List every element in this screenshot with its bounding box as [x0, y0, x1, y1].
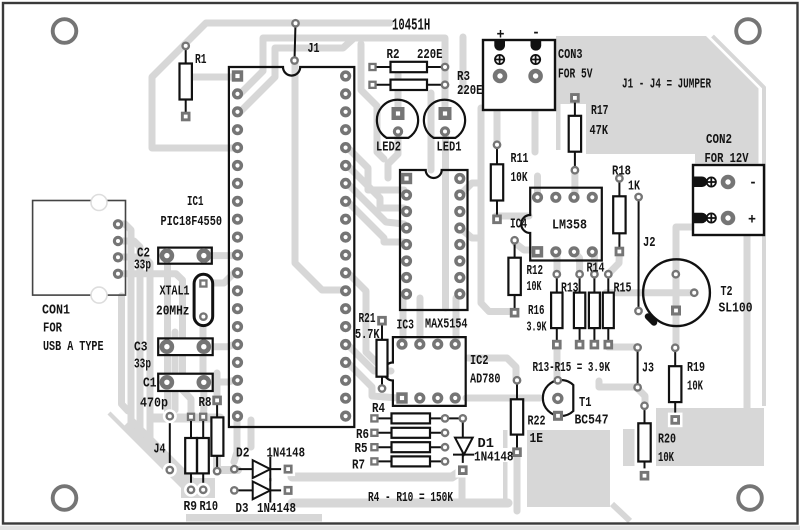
diode D3: [231, 478, 295, 502]
svg-text:10451H: 10451H: [392, 17, 430, 36]
svg-text:R4 - R10 = 150K: R4 - R10 = 150K: [368, 490, 453, 506]
svg-text:FOR 5V: FOR 5V: [558, 67, 593, 83]
svg-text:33p: 33p: [134, 357, 151, 373]
svg-text:470p: 470p: [140, 396, 168, 412]
svg-text:10K: 10K: [511, 170, 528, 186]
mounting hole bottom-right: [738, 486, 762, 510]
svg-text:R22: R22: [528, 414, 546, 430]
resistor R17: [569, 93, 581, 173]
svg-text:R17: R17: [591, 103, 609, 119]
wire R22 bottom in pour: [514, 453, 521, 511]
svg-text:IC1: IC1: [187, 194, 204, 210]
svg-text:3.9K: 3.9K: [527, 320, 547, 336]
wire C2 to IC1: [204, 252, 234, 259]
svg-text:FOR: FOR: [43, 321, 62, 337]
wire CON1 pins to caps column A: [118, 224, 131, 428]
svg-text:IC4: IC4: [510, 217, 527, 233]
svg-text:1N4148: 1N4148: [267, 446, 306, 462]
svg-text:1N4148: 1N4148: [474, 450, 514, 466]
wire R15 to R18: [608, 252, 619, 274]
wire branch to LED column: [460, 37, 467, 90]
IC IC1 PIC18F4550: [229, 67, 354, 427]
wire IC4 pins to R13-R16: [554, 253, 561, 274]
resistor R7: [370, 456, 448, 466]
transistor T2 SL100: [643, 259, 710, 326]
resistor R18: [613, 175, 625, 256]
svg-text:+: +: [497, 27, 505, 44]
svg-text:CON3: CON3: [558, 47, 583, 63]
wire CON1 shield column: [122, 296, 129, 411]
svg-text:XTAL1: XTAL1: [160, 284, 190, 300]
svg-text:C1: C1: [143, 376, 157, 392]
connector CON2: [693, 165, 764, 235]
wire CON3 right column: [532, 108, 539, 152]
wire IC4 pin1 stub: [534, 176, 541, 195]
svg-text:R4: R4: [372, 401, 385, 417]
jumper J1: [291, 20, 298, 64]
resistor R3: [368, 80, 448, 90]
copper pour bottom-center: [490, 430, 630, 521]
svg-text:MAX5154: MAX5154: [425, 317, 468, 333]
LED LED2: [377, 100, 418, 138]
wire band above R9 R10: [152, 414, 220, 423]
capacitor C1: [158, 374, 213, 391]
mounting hole bottom-left: [53, 486, 77, 510]
resistor R2: [368, 62, 448, 72]
wire crystal to C1: [200, 320, 207, 377]
wire caps column F: [172, 332, 179, 410]
svg-text:10K: 10K: [658, 450, 674, 466]
wire J1 through IC1: [295, 63, 343, 290]
mounting hole top-left: [53, 19, 77, 43]
svg-text:T2: T2: [721, 284, 733, 300]
jumper J3: [634, 344, 640, 390]
wire T2 column to R19: [676, 220, 728, 346]
resistor R21: [377, 316, 388, 392]
resistor R15: [603, 271, 614, 349]
svg-text:CON2: CON2: [706, 132, 732, 148]
connector CON1 USB: [33, 195, 126, 304]
svg-text:R12: R12: [527, 263, 544, 279]
resistor R8: [211, 396, 223, 475]
wire IC3 to IC2 columns: [400, 298, 407, 340]
svg-text:5.7K: 5.7K: [355, 327, 380, 343]
wire IC1 bottom pins down: [234, 420, 237, 462]
copper pour top-right: [556, 36, 759, 164]
wire R2 area down branch: [361, 44, 384, 159]
wire LED2 bottom: [388, 136, 398, 178]
svg-text:R15: R15: [614, 281, 632, 297]
svg-text:AD780: AD780: [470, 372, 501, 388]
wire crystal top to IC1: [204, 273, 234, 283]
svg-text:J3: J3: [642, 361, 654, 377]
svg-text:R16: R16: [528, 303, 545, 319]
wire C1 to R10: [200, 388, 208, 415]
wire C2 column under cap pads: [168, 255, 170, 416]
diode D2: [231, 457, 295, 481]
capacitor C3: [158, 338, 213, 355]
wire CON1 pins to caps column B: [118, 241, 140, 437]
svg-text:R9: R9: [184, 499, 198, 515]
wire R15 bottom to J3: [608, 344, 635, 351]
wire D3 band: [292, 499, 508, 508]
wire D1 down: [459, 472, 466, 503]
svg-text:J2: J2: [643, 235, 656, 251]
svg-text:PIC18F4550: PIC18F4550: [161, 214, 223, 230]
resistor R9: [184, 413, 198, 497]
svg-text:R13: R13: [561, 281, 579, 297]
svg-text:R5: R5: [355, 441, 368, 457]
svg-text:FOR 12V: FOR 12V: [705, 151, 749, 167]
wire IC2 to T1: [466, 395, 540, 402]
pour edge strip right side: [713, 36, 765, 406]
wire R16 to T1: [554, 345, 561, 380]
resistor R5: [370, 442, 448, 452]
wire CON1 pin4 column: [118, 274, 191, 413]
wire IC4 area horizontal: [496, 213, 529, 220]
wire R20 top to J3: [639, 390, 645, 404]
resistor R10: [196, 413, 210, 497]
copper pour bottom-right: [623, 408, 764, 466]
svg-text:R1: R1: [195, 52, 207, 68]
jumper J2: [635, 194, 642, 314]
wire T1 to J3 bottom: [599, 381, 635, 387]
svg-text:SL100: SL100: [719, 301, 753, 317]
wire R17 to IC4 pin: [571, 170, 578, 195]
svg-text:BC547: BC547: [575, 413, 609, 429]
svg-text:R14: R14: [587, 261, 605, 277]
wire D2 to D1 band: [292, 471, 461, 477]
svg-text:J4: J4: [154, 442, 166, 458]
wire R8 bottom to D2: [217, 448, 238, 470]
svg-text:J1: J1: [308, 41, 320, 57]
jumper J4: [163, 409, 177, 477]
wire R22 top: [468, 358, 516, 380]
resistor R6: [370, 428, 448, 438]
svg-text:R8: R8: [199, 395, 212, 411]
svg-text:LM358: LM358: [552, 218, 587, 234]
svg-text:R20: R20: [658, 432, 676, 448]
resistor R20: [637, 403, 652, 483]
wire CON3 to R12 long column: [481, 108, 514, 312]
capacitor C2: [158, 248, 212, 264]
svg-text:R13-R15 = 3.9K: R13-R15 = 3.9K: [533, 360, 611, 376]
svg-text:LED1: LED1: [437, 140, 462, 156]
wire IC1 pin2 up right: [240, 38, 445, 110]
wire CON1 pins to caps column C: [118, 257, 150, 447]
svg-text:R18: R18: [612, 164, 631, 180]
svg-text:T1: T1: [579, 395, 592, 411]
wire R8 top: [214, 373, 221, 397]
svg-text:10K: 10K: [687, 379, 703, 395]
wire CON2 down column: [744, 235, 751, 410]
svg-text:R10: R10: [200, 499, 219, 515]
wire IC1 lower right to IC2: [348, 273, 377, 363]
svg-text:20MHz: 20MHz: [156, 304, 190, 320]
wire IC3 internal: [442, 137, 449, 308]
wire R1 to IC1 pin1: [191, 74, 234, 81]
svg-text:R21: R21: [359, 311, 376, 327]
svg-text:1N4148: 1N4148: [257, 501, 296, 517]
wire R11 top: [494, 107, 501, 145]
svg-text:IC3: IC3: [397, 318, 415, 334]
svg-text:R11: R11: [511, 151, 529, 167]
resistor R13: [574, 271, 585, 349]
svg-text:1K: 1K: [628, 179, 640, 195]
svg-text:C3: C3: [134, 340, 148, 356]
svg-text:R19: R19: [687, 360, 705, 376]
resistor R4: [370, 413, 463, 423]
copper pour bottom-left: [109, 413, 322, 522]
svg-text:LED2: LED2: [376, 140, 401, 156]
resistor R14: [589, 271, 600, 349]
IC IC2 AD780: [384, 337, 466, 406]
svg-text:D2: D2: [236, 446, 250, 462]
svg-text:+: +: [748, 212, 756, 229]
wire IC1 right pins to IC3: [348, 148, 404, 190]
wire IC4 to R12: [515, 243, 535, 250]
resistor R1: [180, 43, 192, 122]
crystal XTAL1: [194, 274, 213, 325]
connector CON3: [483, 40, 555, 110]
transistor T1 BC547: [543, 377, 573, 421]
IC IC3 MAX5154: [400, 170, 468, 310]
resistor R19: [668, 345, 683, 428]
mounting hole top-right: [736, 19, 760, 43]
svg-text:-: -: [532, 25, 540, 42]
svg-text:R7: R7: [352, 458, 365, 474]
svg-text:220E: 220E: [417, 47, 443, 63]
resistor R12: [508, 237, 520, 317]
LED LED1: [424, 100, 465, 138]
wire top-left long trace: [152, 23, 390, 148]
wire LED gap column: [428, 93, 435, 170]
svg-text:47K: 47K: [590, 123, 609, 139]
diode D1: [453, 415, 474, 477]
svg-text:1E: 1E: [530, 431, 544, 447]
wire IC1 pin3 up right: [240, 39, 353, 112]
svg-text:CON1: CON1: [42, 303, 70, 319]
wire IC3 right pin stubs: [460, 183, 479, 195]
svg-text:33p: 33p: [134, 258, 151, 274]
IC IC4 LM358: [521, 188, 602, 261]
resistor R16: [551, 271, 562, 349]
wire T2 right pad horizontal: [606, 289, 694, 296]
wire C1 to IC1: [204, 380, 234, 382]
wire C3 to IC1: [204, 345, 234, 347]
svg-text:D3: D3: [236, 501, 249, 517]
svg-text:220E: 220E: [457, 83, 483, 99]
svg-text:10K: 10K: [527, 279, 542, 295]
svg-text:-: -: [749, 175, 757, 192]
svg-text:IC2: IC2: [470, 353, 489, 369]
resistor R22: [511, 377, 523, 457]
svg-text:R2: R2: [387, 47, 400, 63]
svg-text:USB A TYPE: USB A TYPE: [43, 339, 104, 355]
resistor R11: [491, 142, 503, 225]
wire LED2 top: [395, 74, 402, 108]
svg-text:J1 - J4 = JUMPER: J1 - J4 = JUMPER: [622, 77, 711, 93]
